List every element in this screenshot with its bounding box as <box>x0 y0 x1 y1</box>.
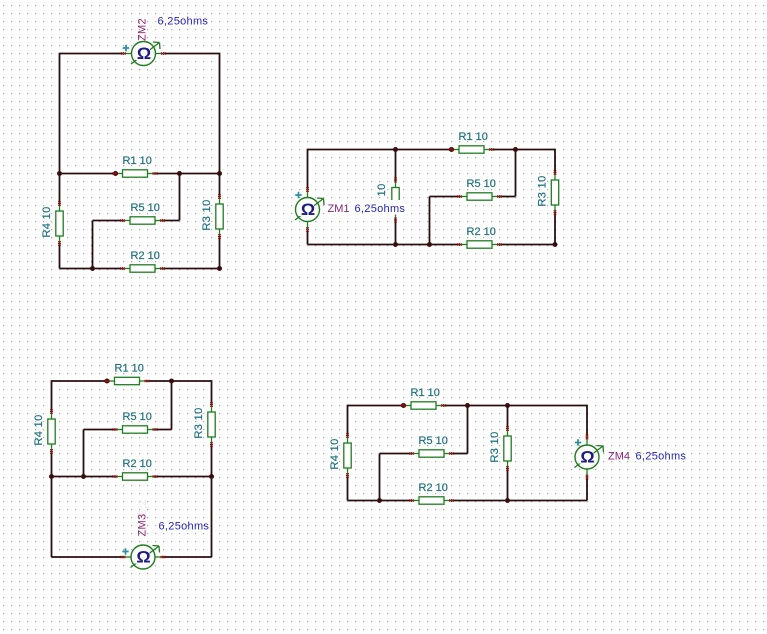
wire c3 right rail upper <box>211 380 213 404</box>
svg-text:R1 10: R1 10 <box>459 131 488 143</box>
wire c3 left rail upper <box>51 380 53 411</box>
wire c1 R1 row left <box>60 173 116 175</box>
wire c2 left rail lower <box>307 230 309 245</box>
wire c4 left rail upper <box>347 405 349 436</box>
junction c2 bottom right <box>553 242 558 247</box>
resistor R4 c1 <box>41 201 63 246</box>
resistor R4 c3 <box>33 409 55 454</box>
svg-text:R1 10: R1 10 <box>123 155 152 167</box>
wire c1 top-right <box>164 53 220 55</box>
junction c1 bottom right <box>217 266 222 271</box>
junction c1 R1-branch <box>177 171 182 176</box>
wire c1 left rail upper <box>59 53 61 204</box>
svg-text:6,25ohms: 6,25ohms <box>355 203 406 215</box>
wire c1 right rail upper <box>219 53 221 197</box>
wire c2 right rail upper <box>554 149 556 173</box>
wire c2 right rail lower <box>554 213 556 245</box>
resistor R3 c3 <box>193 402 215 447</box>
wire c1 R1 row right <box>155 173 220 175</box>
wire c3 meter row left <box>52 556 124 558</box>
wire c2 top right <box>492 149 556 151</box>
junction c1 bottom leg <box>90 266 95 271</box>
junction c3 bottom leg <box>81 474 86 479</box>
wire c1 R5 left <box>93 220 124 222</box>
label ZM1 <box>326 202 350 216</box>
pin x c3 R1 left <box>105 380 108 382</box>
wire c4 left rail lower <box>347 476 349 501</box>
junction c3 bottom-left <box>49 474 54 479</box>
wire c1 right rail lower <box>219 237 221 269</box>
resistor R3 c1 <box>201 194 223 239</box>
svg-text:R2 10: R2 10 <box>467 226 496 238</box>
junction c4 R5 branch bottom <box>377 498 382 503</box>
svg-text:R3 10: R3 10 <box>489 431 501 462</box>
wire c3 right rail mid <box>211 445 213 477</box>
resistor R5 c4 <box>409 435 454 457</box>
svg-text:R5 10: R5 10 <box>123 411 152 423</box>
svg-text:R3 10: R3 10 <box>193 407 205 438</box>
junction c2 stub top <box>393 147 398 152</box>
resistor R4 c4 <box>329 433 351 478</box>
svg-text:R4 10: R4 10 <box>41 206 53 237</box>
junction c2 R1-branch <box>513 147 518 152</box>
wire c3 top left <box>52 380 108 382</box>
wire c4 bottom left <box>348 500 412 502</box>
resistor R1 c2 <box>449 131 494 153</box>
wire c4 R5 right <box>452 453 468 455</box>
wire c1 top-left <box>60 53 124 55</box>
svg-text:6,2: 6,2 <box>137 500 149 515</box>
svg-text:R3 10: R3 10 <box>201 199 213 230</box>
wire c4 bottom right <box>452 500 588 502</box>
junction c1 right-R1 <box>217 171 222 176</box>
junction c4 R3 top <box>505 403 510 408</box>
junction c1 left-R1 <box>57 171 62 176</box>
resistor R2 c2 <box>457 226 502 248</box>
wire c2 bottom right <box>500 244 556 246</box>
resistor R3 c2 <box>537 170 559 215</box>
wire c2 R5 left <box>430 196 460 198</box>
resistor R1 c3 <box>105 363 150 385</box>
svg-text:ZM3: ZM3 <box>137 514 149 537</box>
wire c2 stub upper <box>395 150 397 181</box>
wire c3 bottom right <box>155 476 212 478</box>
wire c1 R5 right <box>162 220 180 222</box>
junction c4 R1-branch <box>465 403 470 408</box>
resistor R5 c2 <box>457 178 502 200</box>
junction c2 R5 branch bottom <box>427 242 432 247</box>
wire c1 branch R1-R5 <box>179 174 181 221</box>
wire c4 R5 left <box>380 453 412 455</box>
wire c4 branch R5 down <box>379 454 381 501</box>
resistor R3 c4 <box>489 426 511 471</box>
svg-text:R1 10: R1 10 <box>115 363 144 375</box>
wire c1 left rail lower <box>59 244 61 269</box>
svg-text:R2 10: R2 10 <box>131 250 160 262</box>
svg-text:Ω: Ω <box>301 200 316 219</box>
wire c3 right rail lower <box>211 477 213 558</box>
resistor R5 c1 <box>120 202 165 224</box>
junction c3 R1 left pin <box>105 379 110 384</box>
ohmmeter ZM4 <box>575 435 604 480</box>
junction c4 R3 bottom <box>505 498 510 503</box>
svg-text:Ω: Ω <box>137 44 152 63</box>
svg-text:ZM1: ZM1 <box>328 203 350 215</box>
label ZM1 value <box>352 200 405 215</box>
wire c1 bottom right <box>162 268 220 270</box>
svg-text:R5 10: R5 10 <box>467 178 496 190</box>
svg-text:6,25ohms: 6,25ohms <box>636 451 687 463</box>
junction c3 bottom-right <box>209 474 214 479</box>
wire c2 R5 right <box>500 196 516 198</box>
wire c3 meter row right <box>163 556 212 558</box>
wire c4 meter rail lower <box>586 478 588 501</box>
svg-text:R2 10: R2 10 <box>123 458 152 470</box>
junction c1 R1 left pin <box>113 171 118 176</box>
svg-text:ZM2: ZM2 <box>137 18 149 41</box>
resistor R2 c4 <box>409 482 454 504</box>
resistor R5 c3 <box>113 411 158 433</box>
wire c2 branch R5 down <box>429 197 431 245</box>
svg-text:Ω: Ω <box>580 447 595 466</box>
junction c2 stub bottom <box>393 242 398 247</box>
wire c1 bottom left <box>60 268 124 270</box>
junction c2 R1 left pin <box>449 147 454 152</box>
pin x c1 R1 left <box>113 172 116 174</box>
wire c3 left rail lower <box>51 477 53 558</box>
svg-text:R5 10: R5 10 <box>131 202 160 214</box>
ohmmeter ZM1 <box>295 187 324 232</box>
resistor R4 c2 stub <box>376 178 399 223</box>
wire c2 stub lower <box>395 220 397 245</box>
svg-text:R4 10: R4 10 <box>329 438 341 469</box>
wire c4 top right <box>444 405 588 407</box>
wire c4 top left <box>348 405 404 407</box>
svg-text:R2 10: R2 10 <box>419 482 448 494</box>
svg-text:6,25ohms: 6,25ohms <box>159 521 210 533</box>
svg-text:ZM4: ZM4 <box>608 451 630 463</box>
svg-text:R3 10: R3 10 <box>537 175 549 206</box>
resistor R1 c4 <box>401 387 446 409</box>
junction c3 R1-branch <box>169 379 174 384</box>
wire c3 left rail mid <box>51 452 53 477</box>
wire c3 branch R1-R5 <box>171 381 173 430</box>
wire c1 left leg <box>92 221 94 269</box>
wire c4 R3 rail upper <box>507 406 509 429</box>
wire c3 left leg <box>83 430 85 477</box>
wire c3 top right <box>147 380 212 382</box>
wire c2 top left <box>308 149 452 151</box>
wire c4 branch R5 up <box>467 406 469 454</box>
wire c2 branch R5 up <box>515 150 517 197</box>
wire c3 R5 left <box>84 429 116 431</box>
resistor R1 c1 <box>113 155 158 177</box>
pin x c4 R1 left <box>401 404 404 406</box>
wire c4 meter rail upper <box>586 405 588 437</box>
svg-text:R1 10: R1 10 <box>411 387 440 399</box>
resistor R2 c3 <box>113 458 158 480</box>
svg-text:R5 10: R5 10 <box>419 435 448 447</box>
svg-text:6,25ohms: 6,25ohms <box>158 16 209 28</box>
svg-text:R4 10: R4 10 <box>33 414 45 445</box>
pin x c2 R1 left <box>449 148 452 150</box>
junction c4 R1 left pin <box>401 403 406 408</box>
wire c2 left rail upper <box>307 149 309 189</box>
wire c2 bottom left <box>308 244 460 246</box>
ohmmeter ZM2 <box>121 42 166 66</box>
wire c4 R3 rail lower <box>507 469 509 501</box>
svg-text:Ω: Ω <box>136 547 151 566</box>
ohmmeter ZM3 <box>121 545 166 569</box>
wire c3 R5 right <box>155 429 172 431</box>
resistor R2 c1 <box>120 250 165 272</box>
wire c3 bottom left <box>52 476 116 478</box>
